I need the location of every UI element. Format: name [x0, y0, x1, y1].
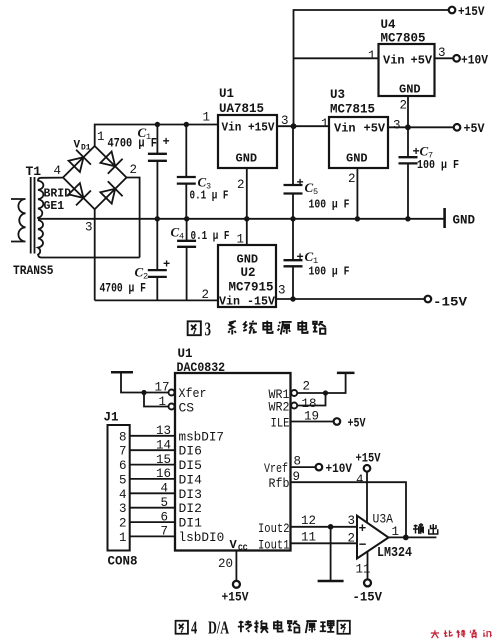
svg-text:3: 3: [119, 502, 127, 516]
capacitor C3 0.1uF stem: [185, 125, 187, 219]
capacitor C5 plates: [284, 185, 303, 194]
svg-text:GND: GND: [453, 214, 476, 228]
svg-text:+: +: [163, 258, 170, 272]
svg-text:-15V: -15V: [433, 296, 468, 310]
wire Iout1 pin 11 to op-amp pin 2: [291, 542, 359, 544]
svg-text:3: 3: [348, 514, 356, 528]
svg-text:T1: T1: [26, 164, 42, 179]
svg-text:1: 1: [119, 531, 127, 545]
svg-text:3: 3: [85, 221, 93, 235]
wire secondary bottom lead: [41, 257, 140, 259]
svg-text:DI3: DI3: [179, 487, 202, 502]
diode top-right (1 to 2): [100, 152, 122, 174]
svg-text:V: V: [230, 538, 238, 552]
wire J1 pin4 to DI3: [130, 492, 175, 494]
svg-text:1: 1: [97, 130, 105, 144]
wire raw- rail to U2 pin 2: [95, 299, 218, 301]
svg-text:4: 4: [191, 618, 197, 638]
svg-text:8: 8: [119, 430, 127, 444]
wire WR1 to bar: [298, 373, 346, 393]
svg-text:2: 2: [348, 172, 356, 186]
svg-text:GE1: GE1: [44, 200, 65, 213]
connector J1 CON8 box: [108, 425, 130, 551]
svg-text:16: 16: [156, 467, 171, 481]
svg-text:6: 6: [119, 459, 127, 473]
wire U3 pin 3 out to +5V: [388, 126, 454, 128]
svg-text:+5V: +5V: [364, 122, 386, 136]
svg-text:4: 4: [179, 232, 184, 242]
regulator U1 UA7815 box: [218, 115, 277, 168]
svg-text:5: 5: [160, 496, 168, 510]
svg-text:11: 11: [356, 563, 371, 577]
terminal +15V: [449, 7, 456, 14]
svg-text:15: 15: [156, 453, 171, 467]
svg-text:2: 2: [143, 272, 148, 282]
svg-text:3: 3: [278, 284, 286, 298]
diode top-left (4 to 1): [69, 150, 91, 172]
svg-text:1: 1: [158, 395, 166, 409]
svg-text:13: 13: [156, 424, 171, 438]
wire U1 pin 3 out to U3 pin 1: [277, 125, 329, 127]
bridge rectifier VD1 diamond: [63, 146, 127, 209]
regulator U4 MC7805 box: [379, 44, 435, 96]
diode bottom-left (4 to 3): [69, 183, 91, 205]
wire U4 pin 3 out to +10V: [435, 57, 454, 59]
svg-text:+5V: +5V: [411, 54, 433, 68]
svg-text:DAC0832: DAC0832: [177, 361, 226, 375]
svg-text:4700 µ F: 4700 µ F: [108, 137, 158, 151]
svg-text:6: 6: [160, 510, 168, 524]
inversion bubble Xfer pin 17: [169, 390, 175, 396]
transformer T1 primary winding: [11, 199, 26, 242]
inversion bubble WR1 pin 2: [291, 390, 297, 396]
terminal +10V: [453, 55, 460, 62]
svg-text:BRID: BRID: [44, 188, 72, 201]
wire ILE pin 19 to +5V: [291, 421, 334, 423]
svg-text:Iout2: Iout2: [258, 521, 290, 536]
regulator U2 MC7915 box: [218, 245, 276, 307]
wire bridge pin 2 return: [127, 178, 140, 258]
diode bottom-right (3 to 2): [100, 181, 122, 203]
svg-text:+5V: +5V: [348, 416, 366, 430]
power bar left (Xfer/CS pullup): [111, 371, 133, 374]
wire U4 pin 2 riser through C7: [407, 96, 409, 219]
figure 3: system power supply: [11, 7, 460, 307]
svg-text:2: 2: [400, 99, 408, 113]
wire CS tie: [144, 393, 168, 407]
wire op-amp pin 11 to -15V: [367, 548, 369, 579]
wire Vref pin 8 to +10V: [291, 466, 316, 468]
svg-text:U1: U1: [219, 87, 234, 101]
wire J1 pin7 to DI6: [130, 449, 175, 451]
svg-text:WR2: WR2: [269, 400, 290, 415]
wire bridge pin 1 up and raw+ rail to U1 pin 1: [95, 125, 218, 147]
svg-text:9: 9: [293, 470, 301, 484]
inversion bubble CS pin 1: [169, 404, 175, 410]
svg-text:V: V: [74, 140, 81, 152]
wire output pin 1: [389, 536, 437, 538]
wire GND rail (center tap): [38, 218, 445, 220]
DAC U1 DAC0832 box: [175, 373, 291, 551]
capacitor C7 plates: [399, 157, 418, 163]
svg-text:U3: U3: [330, 88, 345, 102]
capacitor C6 plates: [284, 260, 303, 266]
svg-text:1: 1: [237, 233, 245, 247]
svg-text:GND: GND: [399, 83, 421, 97]
red watermark dabite zixun: [431, 630, 492, 638]
wire WR2 tie: [298, 393, 326, 406]
svg-text:MC7815: MC7815: [330, 103, 375, 117]
svg-text:+10V: +10V: [326, 462, 353, 476]
svg-text:+15V: +15V: [356, 452, 381, 466]
output label (shuchu): [413, 524, 438, 534]
svg-text:+: +: [297, 176, 304, 190]
junction dots fig4: [141, 390, 408, 540]
svg-text:4: 4: [119, 488, 127, 502]
svg-text:U4: U4: [381, 18, 397, 32]
svg-text:lsbDI0: lsbDI0: [179, 530, 225, 545]
svg-text:+5V: +5V: [464, 122, 485, 136]
svg-text:+: +: [359, 521, 367, 536]
capacitor C4 0.1uF stem: [186, 219, 188, 301]
op-amp U3A triangle: [357, 516, 389, 559]
svg-text:7: 7: [160, 525, 168, 539]
terminal -15V op-amp: [364, 579, 371, 586]
svg-text:MC7915: MC7915: [229, 281, 274, 295]
junction dots: [155, 122, 411, 302]
svg-text:TRANS5: TRANS5: [13, 264, 54, 278]
svg-text:12: 12: [301, 514, 316, 528]
caption figure 3: [188, 321, 326, 336]
svg-text:17: 17: [154, 381, 169, 395]
svg-text:0.1 µ F: 0.1 µ F: [190, 189, 229, 203]
svg-text:Xfer: Xfer: [179, 386, 207, 401]
svg-text:ILE: ILE: [271, 416, 290, 431]
svg-text:MC7805: MC7805: [381, 32, 426, 46]
power bar right (WR pullup): [337, 372, 355, 375]
capacitor C5 stem: [292, 126, 294, 219]
svg-text:U1: U1: [178, 347, 193, 361]
svg-text:+10V: +10V: [461, 53, 488, 67]
wire +15V to op-amp pin 4: [366, 472, 368, 528]
wire J1 pin6 to DI5: [130, 464, 175, 466]
svg-text:GND: GND: [237, 253, 259, 267]
svg-text:1: 1: [392, 525, 400, 539]
svg-text:0.1 µ F: 0.1 µ F: [191, 229, 230, 243]
svg-text:3: 3: [205, 320, 212, 341]
transformer T1 secondary winding: [38, 178, 43, 258]
wire J1 pin5 to DI4: [130, 478, 175, 480]
wire U1 pin 2 to U2 pin 1: [246, 168, 248, 245]
svg-text:3: 3: [393, 119, 401, 133]
svg-text:CS: CS: [179, 401, 195, 416]
svg-text:+: +: [163, 135, 170, 149]
capacitor C3 plates: [177, 177, 196, 184]
svg-text:2: 2: [130, 163, 138, 177]
svg-text:U3A: U3A: [373, 512, 394, 527]
svg-text:11: 11: [301, 531, 316, 545]
svg-text:+15V: +15V: [222, 591, 249, 605]
terminal +15V op-amp: [364, 465, 371, 472]
terminal +5V: [334, 418, 341, 425]
svg-text:Iout1: Iout1: [258, 537, 290, 552]
capacitor C1 4700uF stem: [156, 125, 158, 219]
wire bar stem to Xfer: [121, 372, 168, 392]
svg-text:2: 2: [119, 517, 127, 531]
svg-text:+: +: [297, 251, 304, 265]
figure 3 text labels: [13, 5, 488, 310]
svg-text:Rfb: Rfb: [269, 476, 290, 491]
svg-text:5: 5: [119, 473, 127, 487]
svg-text:7: 7: [119, 445, 127, 459]
svg-text:4: 4: [54, 164, 62, 178]
wire Rfb pin 9 feedback to output: [291, 482, 407, 537]
capacitor C2 4700uF stem: [156, 219, 158, 301]
wire +15V riser: [294, 10, 449, 126]
svg-text:2: 2: [348, 532, 356, 546]
svg-text:3: 3: [438, 46, 446, 60]
terminal -15V: [425, 296, 432, 303]
svg-text:Vin: Vin: [383, 54, 405, 68]
svg-text:+15V: +15V: [458, 5, 485, 19]
terminal +5V: [454, 124, 461, 131]
svg-text:D/A: D/A: [208, 618, 229, 638]
svg-text:19: 19: [304, 410, 319, 424]
svg-text:4700 µ F: 4700 µ F: [100, 282, 147, 296]
svg-text:LM324: LM324: [377, 546, 412, 561]
wire J1 pin2 to DI1: [130, 521, 175, 523]
svg-text:Vin: Vin: [334, 122, 356, 136]
terminal +10V: [316, 464, 323, 471]
svg-text:Vref: Vref: [264, 461, 288, 476]
svg-text:4: 4: [356, 473, 364, 487]
capacitor C6 100uF stem: [292, 219, 294, 299]
svg-text:D1: D1: [81, 144, 91, 153]
svg-text:14: 14: [156, 438, 171, 452]
svg-text:GND: GND: [346, 152, 368, 166]
wire J1 pin8 to DI7: [130, 435, 175, 437]
svg-text:CC: CC: [238, 544, 248, 553]
svg-text:CON8: CON8: [108, 555, 138, 569]
svg-text:2: 2: [237, 178, 245, 192]
wire bridge pin 3 down: [94, 209, 96, 300]
svg-text:DI1: DI1: [179, 516, 203, 531]
svg-text:msbDI7: msbDI7: [179, 429, 225, 444]
svg-text:−: −: [359, 538, 367, 553]
capacitor C2 plates: [148, 270, 167, 277]
figure 4: D/A converter: [108, 372, 437, 588]
svg-text:100 µ F: 100 µ F: [309, 265, 350, 279]
svg-text:J1: J1: [104, 411, 119, 425]
svg-text:2: 2: [303, 380, 311, 394]
transformer T1 core: [31, 177, 35, 254]
ground bar GND: [443, 208, 446, 228]
svg-text:Vin +15V: Vin +15V: [222, 122, 275, 135]
figure 4 text labels: [104, 347, 413, 605]
svg-text:100 µ F: 100 µ F: [417, 158, 459, 172]
capacitor C1 plates: [148, 154, 167, 161]
wire J1 pin3 to DI2: [130, 507, 175, 509]
capacitor C4 plates: [177, 241, 196, 247]
svg-text:UA7815: UA7815: [219, 102, 264, 116]
wire Vcc pin 20 stem: [235, 551, 237, 581]
svg-text:Vin -15V: Vin -15V: [219, 296, 275, 309]
terminal +15V Vcc: [233, 581, 240, 588]
svg-text:5: 5: [313, 187, 318, 197]
svg-text:U2: U2: [241, 266, 256, 280]
svg-text:DI2: DI2: [179, 501, 202, 516]
svg-text:100 µ F: 100 µ F: [309, 198, 350, 212]
svg-text:20: 20: [218, 557, 233, 571]
wire Iout2 ground stem: [330, 527, 332, 581]
wire branch to U4 pin 1: [294, 57, 379, 59]
wire J1 pin1 to DI0: [130, 535, 175, 537]
svg-text:4: 4: [160, 482, 168, 496]
svg-text:8: 8: [294, 455, 302, 469]
svg-text:-15V: -15V: [353, 591, 383, 605]
wire U3 pin 2 down to GND rail: [356, 168, 358, 219]
svg-text:2: 2: [202, 288, 210, 302]
wire U2 pin 3 out to -15V: [276, 298, 425, 300]
svg-text:1: 1: [368, 49, 376, 63]
inversion bubble WR2 pin 18: [291, 403, 297, 409]
caption figure 4: [176, 620, 350, 634]
ground bar: [318, 580, 344, 583]
svg-text:1: 1: [203, 111, 211, 125]
svg-text:3: 3: [281, 114, 289, 128]
svg-text:DI4: DI4: [179, 472, 203, 487]
wire secondary top lead to bridge pin 4: [41, 177, 63, 179]
wire Iout2 pin 12 to op-amp pin 3: [291, 526, 359, 528]
svg-text:1: 1: [321, 117, 329, 131]
svg-text:GND: GND: [236, 152, 258, 166]
regulator U3 MC7815 box: [329, 117, 388, 168]
svg-text:DI5: DI5: [179, 458, 202, 473]
svg-text:DI6: DI6: [179, 444, 202, 459]
